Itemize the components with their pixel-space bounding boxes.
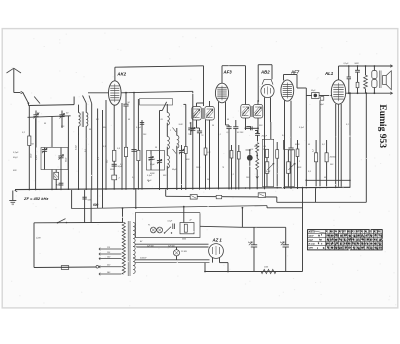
svg-text:Uf/V: Uf/V <box>309 248 314 250</box>
svg-text:AK2: AK2 <box>116 71 126 76</box>
svg-text:Ik mA: Ik mA <box>309 244 315 246</box>
svg-text:0,1: 0,1 <box>96 119 99 121</box>
wire grid to AK2 <box>88 92 109 94</box>
verticals crossing to power <box>84 190 86 223</box>
trimmer C8 <box>179 150 184 152</box>
tube AK2 <box>109 81 122 105</box>
antenna selector switch S1 <box>34 97 40 104</box>
inner box with resistor <box>180 223 194 234</box>
resistor R5 <box>204 148 207 155</box>
svg-text:50µF: 50µF <box>150 164 155 166</box>
svg-text:50µF: 50µF <box>13 157 19 159</box>
AZ1 connections <box>212 258 214 263</box>
AK2 pins <box>105 100 107 190</box>
mains left vertical <box>33 223 35 268</box>
line y197 <box>166 195 277 198</box>
grid coupling cap C14 <box>288 147 293 149</box>
wire down from antenna node <box>28 106 30 191</box>
resistor R4 <box>184 147 187 154</box>
wire AK2 anode loop <box>114 67 116 81</box>
IFT1 core <box>201 108 203 119</box>
AL1 grid components <box>312 93 320 99</box>
fuse <box>61 266 68 270</box>
antenna coil L1 <box>79 113 81 127</box>
speaker transformer core <box>379 71 381 89</box>
IF transformer 2 unit A <box>241 105 251 119</box>
padding cap C9 <box>188 127 193 129</box>
trimmer C4 <box>58 155 63 157</box>
cathode bypass cap C7 <box>112 163 117 165</box>
AB2 top cap <box>262 79 273 84</box>
AF box 2 <box>284 150 294 187</box>
voltage table <box>308 230 383 250</box>
cap below bus <box>82 196 86 198</box>
filter cap 2 <box>285 227 287 245</box>
antenna coil L2 <box>86 113 88 127</box>
pilot lamp <box>173 250 179 256</box>
resistor R1 <box>28 136 31 146</box>
wire bus to B+ drop <box>302 188 304 272</box>
screen resistor R3 <box>124 147 127 156</box>
band filter box <box>41 148 68 170</box>
coupling rect between boxes <box>276 150 279 159</box>
tube AF3 <box>215 83 228 103</box>
svg-text:0,1: 0,1 <box>346 124 349 126</box>
ground symbol <box>12 191 14 201</box>
wires right verticals <box>283 140 285 150</box>
HV line to rectifier <box>135 259 210 261</box>
svg-text:AB2: AB2 <box>347 231 352 234</box>
second filter box <box>147 151 165 171</box>
trimmer capacitor C1 <box>33 114 38 116</box>
bottom line <box>205 271 303 273</box>
wire AK2 right top <box>121 91 193 93</box>
wire AZ1 bottom left <box>204 263 206 272</box>
wire AB2 anode loop <box>257 65 259 80</box>
svg-text:0,1µF: 0,1µF <box>299 127 305 129</box>
AB2 pin wires <box>264 122 266 189</box>
wire <box>51 170 53 191</box>
svg-text:0,5M: 0,5M <box>266 171 271 173</box>
wire x35 <box>35 118 37 189</box>
decoupling resistor network <box>348 66 350 77</box>
AL1 pins <box>335 104 337 187</box>
svg-text:250: 250 <box>343 243 348 246</box>
svg-text:Eumig 953: Eumig 953 <box>377 104 387 148</box>
svg-text:2x350V: 2x350V <box>139 258 147 260</box>
power transformer primary <box>122 222 125 274</box>
wave trap <box>112 175 117 180</box>
600 line <box>72 206 267 209</box>
caps at AF3 cathode <box>226 124 230 126</box>
cap above bus x61 <box>60 170 62 191</box>
wire drop x315 <box>315 188 317 202</box>
wire x138 <box>137 99 139 190</box>
capacitor C6 on screen <box>125 93 127 105</box>
wire vertical x97 <box>97 109 99 209</box>
mains switch blade <box>58 219 66 223</box>
switch S2 <box>83 96 87 104</box>
tone potentiometer <box>287 162 290 174</box>
wire drop from bus x165 <box>165 189 167 196</box>
svg-text:0,5: 0,5 <box>264 146 267 148</box>
box switch <box>165 227 172 233</box>
wire x134 <box>133 93 135 190</box>
wire diode row <box>246 127 259 129</box>
primary feed drop <box>122 208 124 222</box>
AF box 1 <box>262 139 273 186</box>
oscillator coil L4 <box>177 136 179 149</box>
svg-text:PL: PL <box>148 225 150 227</box>
svg-text:0,1µF: 0,1µF <box>136 127 142 129</box>
svg-text:1: 1 <box>286 173 287 175</box>
right side parts <box>315 140 317 153</box>
trimmer C3 <box>42 149 47 151</box>
box capacitor <box>172 224 174 230</box>
IFT2 core <box>250 106 252 117</box>
svg-text:0,1µF: 0,1µF <box>150 159 156 161</box>
cap on x134 <box>131 149 136 151</box>
box feed from 600 line <box>183 207 185 223</box>
svg-text:0,1: 0,1 <box>132 177 135 179</box>
svg-text:Röhre: Röhre <box>309 232 316 234</box>
resistor R6 <box>230 151 233 159</box>
svg-text:5000: 5000 <box>182 239 186 241</box>
volume potentiometer <box>265 162 269 174</box>
transformer secondary windings <box>133 223 135 235</box>
svg-text:1: 1 <box>170 130 171 132</box>
svg-text:AB2: AB2 <box>260 70 270 75</box>
output return line y180 <box>306 179 350 181</box>
tube AL1 <box>331 80 345 104</box>
switch ticks <box>173 128 177 133</box>
filter cap rail <box>242 226 285 228</box>
coil core <box>81 112 83 128</box>
cap C11 <box>197 130 202 132</box>
component on line x216 <box>216 195 222 198</box>
svg-text:5000: 5000 <box>88 200 92 202</box>
svg-text:600: 600 <box>93 203 99 207</box>
mains switch line <box>34 221 119 223</box>
diode load resistor R8a <box>256 143 259 153</box>
fuse box component <box>258 193 265 198</box>
transformer taps <box>99 248 122 250</box>
svg-text:0,1: 0,1 <box>218 134 221 136</box>
trimmer C10 <box>190 128 195 130</box>
heater box <box>136 213 201 238</box>
heater lines pair <box>136 243 209 245</box>
svg-text:0,1: 0,1 <box>227 132 230 134</box>
cap C13 <box>255 133 260 135</box>
voltage selector node <box>96 266 99 269</box>
resistor R3b <box>137 150 140 160</box>
cap C12 <box>245 118 247 128</box>
paper texture noise <box>4 33 396 306</box>
IF transformer 1 unit B <box>205 107 215 121</box>
svg-text:Ua/V: Ua/V <box>309 235 314 237</box>
tube AB2 <box>261 84 274 97</box>
top bus output <box>339 65 392 67</box>
svg-text:(5000): (5000) <box>330 157 336 159</box>
AL1 top anode wire <box>338 66 340 80</box>
svg-text:1: 1 <box>299 161 300 163</box>
antenna <box>7 68 22 73</box>
svg-text:50µF: 50µF <box>118 166 124 168</box>
svg-text:5µF 600: 5µF 600 <box>168 246 175 248</box>
svg-text:5µF 600: 5µF 600 <box>147 246 154 248</box>
IFT1 wires <box>196 103 198 107</box>
svg-text:250pF: 250pF <box>253 146 260 148</box>
field smoothing resistor <box>261 269 276 273</box>
wire input row <box>27 103 29 105</box>
svg-text:0,1µF: 0,1µF <box>147 175 153 177</box>
primary top wire <box>119 221 124 223</box>
box to rectifier wire <box>200 226 242 227</box>
600 line drop from bus <box>71 190 73 209</box>
trimmer capacitor C2 <box>59 114 64 116</box>
svg-text:4: 4 <box>148 180 149 183</box>
svg-text:AF3: AF3 <box>223 70 233 75</box>
wire x159 down <box>159 113 161 190</box>
band switch box <box>140 99 173 105</box>
wire into IFT1 trimmer <box>192 91 194 120</box>
cathode resistor R2 <box>113 150 116 161</box>
svg-text:0,1µF: 0,1µF <box>13 152 19 154</box>
svg-text:220V: 220V <box>35 238 41 240</box>
padder capacitor C5 <box>54 172 59 179</box>
svg-text:PL 989: PL 989 <box>181 251 187 253</box>
svg-text:1: 1 <box>263 149 264 151</box>
wire x142 <box>141 120 143 190</box>
svg-text:0,1: 0,1 <box>103 146 106 148</box>
rectifier tube AZ1 <box>209 244 224 259</box>
output transformer primary R <box>357 66 359 70</box>
svg-text:ZF = 452 kHz: ZF = 452 kHz <box>23 196 48 201</box>
AK2 center pin <box>113 105 115 190</box>
resistor R10 <box>296 149 299 157</box>
AL1 grid leak wire <box>319 100 321 186</box>
wire antenna to switch <box>14 92 21 94</box>
svg-text:0,001: 0,001 <box>36 155 38 160</box>
wire jog down <box>276 197 278 202</box>
wire verticals left section <box>51 116 53 147</box>
filter cap 1 <box>253 227 255 245</box>
AB2 pins <box>264 98 266 123</box>
svg-text:AF7: AF7 <box>290 70 300 75</box>
IF transformer 1 unit A <box>192 107 202 121</box>
wire grid row y116 <box>28 116 71 118</box>
dial lamps in box <box>150 227 156 233</box>
tube AF7 <box>281 80 294 101</box>
svg-text:0,1: 0,1 <box>98 157 100 160</box>
transformer core <box>127 221 129 276</box>
AF7 pins <box>284 101 286 190</box>
resistor R7 <box>237 152 240 160</box>
oscillator coil stack L3 <box>167 113 169 126</box>
tuning indicator blob <box>247 155 253 161</box>
oscillator switch S3 <box>162 102 166 111</box>
speaker line <box>346 92 392 94</box>
svg-text:0,1: 0,1 <box>22 132 25 134</box>
field coil <box>372 71 377 79</box>
svg-text:0,1µF: 0,1µF <box>344 63 350 65</box>
AF7 anode wire <box>283 75 285 81</box>
wire AF3 anode loop <box>221 66 223 84</box>
svg-text:0,1: 0,1 <box>231 174 234 176</box>
speaker <box>383 76 387 85</box>
component box on line <box>190 195 197 200</box>
IFT2 wires <box>257 101 259 105</box>
svg-text:AL1: AL1 <box>324 71 334 76</box>
ground bus <box>15 187 350 189</box>
mains lower line with fuse <box>34 266 96 269</box>
zigzag resistor <box>365 66 367 75</box>
AF3 pins <box>218 102 220 189</box>
IF transformer 2 unit B <box>253 105 262 119</box>
speaker return vertical <box>365 93 367 202</box>
resistor in box1 <box>265 149 268 157</box>
diode load resistor R8b <box>256 159 259 170</box>
line y202 <box>277 201 367 203</box>
